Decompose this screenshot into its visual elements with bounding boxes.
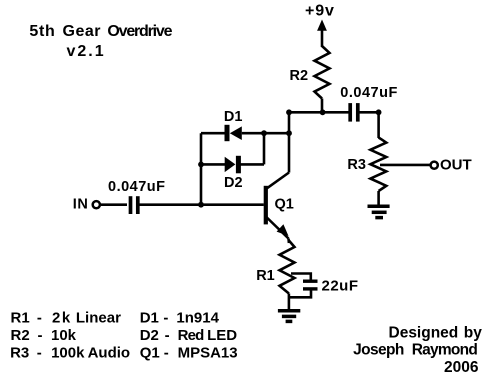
svg-text:0.047uF: 0.047uF <box>108 179 166 195</box>
wire R1 bottom to ground <box>288 294 291 310</box>
svg-text:OUT: OUT <box>440 157 472 174</box>
node junction dot D1 right <box>286 130 292 136</box>
wire IN to C1 <box>101 203 127 206</box>
svg-text:D2-RedLED: D2-RedLED <box>140 327 238 344</box>
IN terminal circle <box>93 201 100 208</box>
wire R3 wiper to OUT <box>380 164 430 167</box>
wire main node row <box>289 111 349 114</box>
wire cap to R3 top node <box>360 111 379 114</box>
svg-text:R1-2kLinear: R1-2kLinear <box>11 310 122 327</box>
svg-text:0.047uF: 0.047uF <box>340 85 398 101</box>
svg-text:R2: R2 <box>290 68 309 84</box>
node junction dot at collector top <box>286 109 292 115</box>
svg-text:D1-1n914: D1-1n914 <box>140 310 220 327</box>
node junction dot under R2 <box>320 109 326 115</box>
svg-text:R3: R3 <box>347 157 366 173</box>
wire C1 to Q1 base <box>140 203 264 206</box>
wire R2 bottom to node <box>321 99 324 113</box>
resistor R2 <box>315 46 330 99</box>
svg-text:5thGearOverdrive: 5thGearOverdrive <box>29 23 172 40</box>
svg-text:Q1-MPSA13: Q1-MPSA13 <box>140 344 238 361</box>
svg-text:v2.1: v2.1 <box>67 43 106 60</box>
wire diode loop left vertical <box>200 133 203 205</box>
svg-text:IN: IN <box>73 197 89 213</box>
node junction dot at R3 top <box>376 109 382 115</box>
capacitor C3 22uF plates <box>303 281 318 289</box>
wire D2 row left <box>201 163 225 166</box>
capacitor C3 22uF wires <box>289 274 311 298</box>
svg-text:2006: 2006 <box>444 359 479 376</box>
node junction dot D1-D2 link <box>261 130 267 136</box>
resistor R3 <box>370 138 386 192</box>
transistor Q1 emitter with arrow <box>266 217 289 244</box>
wire collector vertical <box>288 112 291 172</box>
node junction dot D2 left <box>198 162 204 168</box>
transistor Q1 base bar <box>264 186 268 225</box>
svg-text:Q1: Q1 <box>275 196 294 212</box>
wire vertical D1 to D2 right link <box>263 133 266 164</box>
wire R3 bottom to ground <box>377 191 380 205</box>
svg-text:D1: D1 <box>224 109 243 125</box>
svg-text:D2: D2 <box>224 175 243 191</box>
wire D2 row right <box>241 163 265 166</box>
capacitor C2 0.047uF output cap <box>350 103 358 122</box>
wire down to R3 <box>377 112 380 138</box>
ground under R3 <box>368 206 390 217</box>
svg-text:22uF: 22uF <box>322 278 359 295</box>
wire D1 row right <box>242 132 289 135</box>
svg-text:R1: R1 <box>256 268 275 284</box>
diode D1 (pointing left) <box>227 125 242 141</box>
svg-text:R3-100kAudio: R3-100kAudio <box>10 344 130 361</box>
svg-text:R2-10k: R2-10k <box>11 327 77 344</box>
wire D1 row left <box>201 132 226 135</box>
wire collector diagonal to Q1 <box>266 173 289 189</box>
svg-text:Designedby: Designedby <box>389 325 483 342</box>
svg-text:JosephRaymond: JosephRaymond <box>353 342 477 359</box>
ground under R1 <box>278 311 300 322</box>
diode D2 (pointing right) <box>225 156 239 174</box>
svg-text:+9v: +9v <box>305 3 335 20</box>
OUT terminal circle <box>431 162 438 169</box>
resistor R1 <box>280 241 295 294</box>
capacitor C1 0.047uF input cap <box>131 196 138 214</box>
node junction dot base/diode loop <box>198 202 204 208</box>
+9v arrow symbol <box>317 20 327 48</box>
